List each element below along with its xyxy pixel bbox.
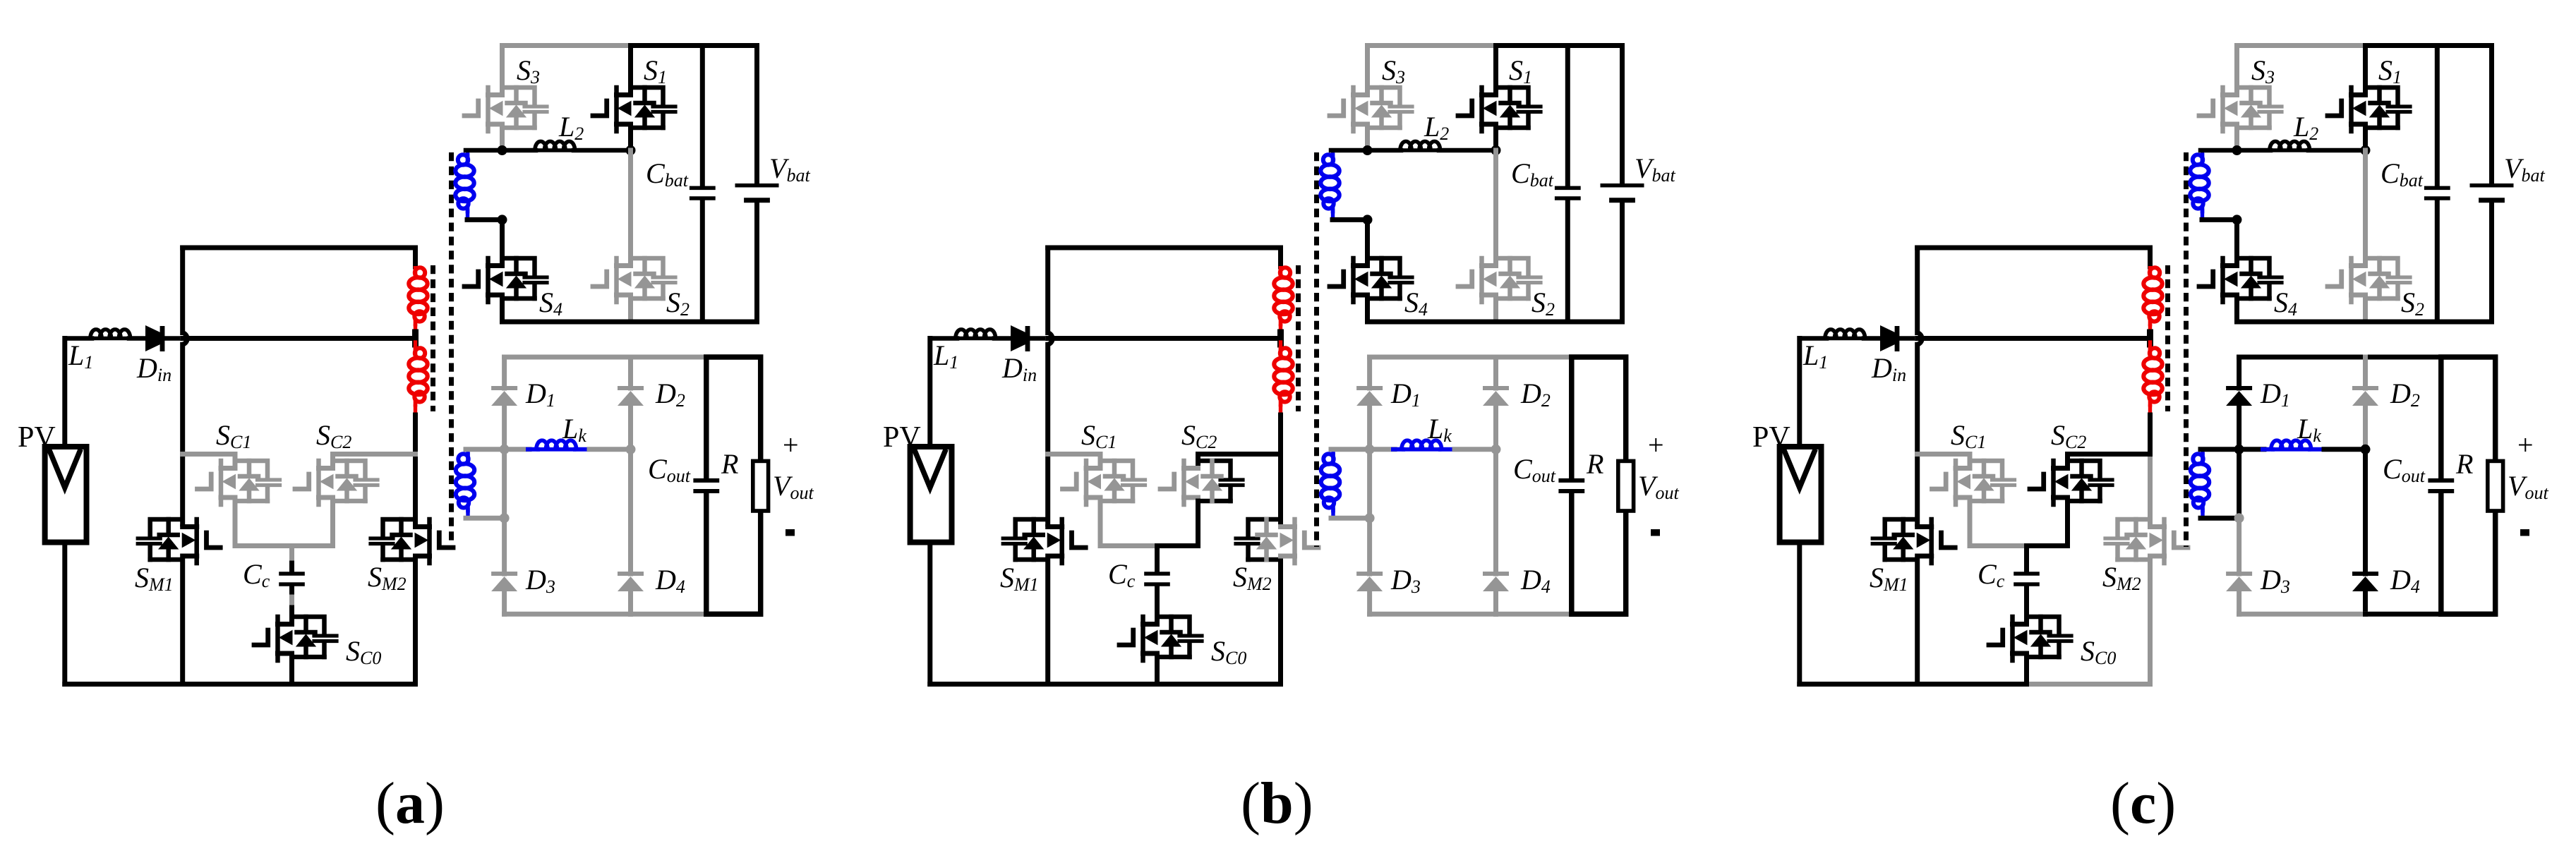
wire top rail black (631, 43, 757, 48)
wire mid rail to transformer tap (183, 336, 416, 341)
wire mid rail to transformer tap (1048, 336, 1281, 341)
transformer core dashed line long (1314, 152, 1319, 547)
wire right vertical mid (1278, 415, 1283, 454)
resistor R (2488, 461, 2503, 511)
inductor L2 (2201, 148, 2270, 153)
transformer primary winding 1 (red) (2150, 267, 2160, 277)
wire S4 source (1365, 298, 1370, 322)
battery Vbat (754, 46, 759, 184)
wire SC1 drain (1918, 454, 1970, 466)
wire S4 drain (500, 219, 505, 263)
node D2 mid (1491, 445, 1501, 454)
wire top rail gray (2237, 43, 2366, 48)
wire S1 drain (2363, 46, 2368, 93)
node winding2 bottom (2234, 513, 2244, 523)
node S3 mid (1363, 145, 1373, 155)
transistor S3 (464, 87, 547, 131)
wire D1 leg upper (2237, 357, 2241, 388)
wire right vertical mid (2148, 415, 2153, 454)
svg-text:+: + (2517, 429, 2534, 461)
capacitor Cc (1144, 574, 1170, 584)
wire D1 to mid (502, 406, 507, 518)
wire top bridge bottom rail (2237, 320, 2492, 325)
transistor SM2 (371, 519, 453, 563)
node Din junction (1918, 333, 1922, 345)
transistor S1 (1458, 87, 1541, 131)
wire right vertical below SM2 (2148, 560, 2153, 684)
wire left vertical upper (1045, 248, 1050, 333)
node D1 mid (1365, 445, 1375, 454)
svg-text:R: R (721, 448, 738, 480)
wire Cc to SC0 (1155, 586, 1160, 622)
wire S4 drain (1365, 219, 1370, 263)
transistor S1 (2328, 87, 2410, 131)
node transformer center tap (1277, 332, 1284, 344)
wire S2 source (628, 298, 633, 322)
capacitor Cbat (1565, 46, 1570, 187)
wire SC2 drain (1198, 454, 1281, 466)
diode D2 (2352, 386, 2378, 390)
wire bottom bridge bottom rail (505, 612, 631, 617)
node Din junction (183, 333, 188, 345)
wire top rail (1918, 246, 2150, 251)
wire output rectangle (1572, 357, 1626, 614)
wire top rail black (1496, 43, 1623, 48)
wire D3 leg (1367, 518, 1372, 574)
diode D1 (491, 386, 517, 390)
wire SC1 source (1100, 501, 1157, 546)
capacitor Cc (279, 574, 305, 584)
wire S3 source (1365, 128, 1370, 150)
transistor S1 (593, 87, 675, 131)
wire S3 drain (1365, 46, 1370, 93)
wire S1 drain (628, 46, 633, 93)
wire winding2 bottom (1331, 516, 1370, 521)
inductor Lk (blue) (505, 447, 529, 452)
wire right vertical top (2148, 248, 2153, 267)
diode D3 (491, 572, 517, 576)
wire D4 leg (628, 449, 633, 574)
label minus (786, 529, 795, 536)
wire right vertical top (413, 248, 418, 267)
transformer core dashed line short (431, 265, 435, 411)
node Din junction (1048, 333, 1053, 345)
wire winding2 top to leg (1331, 447, 1370, 452)
node D1 mid (500, 445, 510, 454)
wire top rail (183, 246, 416, 251)
diode Din (145, 325, 160, 351)
wire winding2 top to leg (2201, 447, 2239, 452)
diode D3 (1356, 572, 1383, 576)
svg-text:+: + (783, 429, 799, 461)
transformer core dashed line long (449, 152, 454, 547)
transistor S3 (2199, 87, 2282, 131)
wire D2 leg upper (2363, 357, 2368, 388)
node S1 mid (626, 145, 636, 155)
inductor L2 (466, 148, 536, 153)
wire PV top (62, 339, 67, 447)
transistor SM1 (138, 519, 220, 563)
wire left vertical upper (180, 248, 185, 333)
wire SC2 source (1157, 501, 1198, 546)
wire PV bottom (62, 543, 67, 684)
diode D2 (1483, 386, 1509, 390)
transformer primary winding 1 (red) (1280, 267, 1290, 277)
wire D3 leg (2237, 518, 2241, 574)
transistor S2 (1458, 258, 1541, 302)
wire top rail black (2366, 43, 2492, 48)
PV source PV (45, 447, 87, 543)
wire top rail (1048, 246, 1281, 251)
node D1 mid (2234, 445, 2244, 454)
wire to Cc (289, 546, 294, 564)
wire D4 leg (2363, 449, 2368, 574)
wire D2 leg upper (1493, 357, 1498, 388)
node S3 mid (498, 145, 507, 155)
transformer core dashed line short (2165, 265, 2170, 411)
wire bottom bridge bottom rail (2239, 612, 2366, 617)
wire winding1 bottom (2202, 217, 2237, 222)
wire SC2 source (2027, 501, 2068, 546)
wire S4 source (500, 298, 505, 322)
wire S3 drain (2234, 46, 2239, 93)
wire SC2 drain (2068, 454, 2150, 466)
wire left vertical upper (1915, 248, 1920, 333)
wire SC0 source (289, 657, 294, 684)
transistor SC2 (2030, 461, 2112, 505)
svg-text:PV: PV (1752, 421, 1790, 454)
wire winding2 top to leg (466, 447, 505, 452)
capacitor Cout (693, 481, 719, 491)
wire mid rail to transformer tap (1918, 336, 2150, 341)
node D2 mid (2361, 445, 2371, 454)
wire S2 source (1493, 298, 1498, 322)
transistor SM1 (1872, 519, 1955, 563)
wire top bridge bottom rail (502, 320, 757, 325)
wire Cc to SC0 (289, 586, 294, 597)
wire right vertical below SM2 (413, 560, 418, 684)
transformer primary winding 1 (red) (415, 267, 425, 277)
node S1 mid (1491, 145, 1501, 155)
transistor SC2 (295, 461, 378, 505)
diode D1 (2226, 386, 2252, 390)
PV source PV (1780, 447, 1822, 543)
wire to Cc (1155, 546, 1160, 572)
wire winding2 bottom (466, 516, 505, 521)
wire S2 drain long (628, 150, 633, 263)
transistor S4 (464, 258, 547, 302)
wire S3 source (500, 128, 505, 150)
transistor SC1 (198, 461, 280, 505)
wire Cc to SC0 (2024, 586, 2029, 622)
wire bottom bridge top rail (2239, 355, 2441, 360)
transistor S2 (593, 258, 675, 302)
wire SC2 source (292, 501, 333, 546)
wire D4 leg (1493, 449, 1498, 574)
capacitor Cout (2428, 481, 2454, 491)
wire top rail gray (1368, 43, 1496, 48)
wire SC0 source (1155, 657, 1160, 684)
wire S4 source (2234, 298, 2239, 322)
wire S2 drain long (1493, 150, 1498, 263)
wire D1 leg upper (1367, 357, 1372, 388)
wire winding1 bottom (467, 217, 502, 222)
wire bottom bridge top rail (1370, 355, 1572, 360)
node transformer center tap (2147, 332, 2153, 344)
wire bottom rail right (292, 682, 416, 687)
wire PV top (1797, 339, 1802, 447)
capacitor Cbat (700, 46, 705, 187)
transformer primary winding 2 (red) (2148, 342, 2152, 349)
transistor SC1 (1063, 461, 1145, 505)
wire bottom rail left (65, 682, 292, 687)
transformer secondary winding 2 (blue) (466, 449, 469, 454)
node transformer center tap (412, 332, 419, 344)
wire right vertical below SM2 (1278, 560, 1283, 684)
transformer secondary winding 1 (blue) (2201, 150, 2204, 155)
inductor L1 (930, 336, 957, 341)
inductor Lk (blue) (1370, 447, 1395, 452)
wire left vertical lower (180, 560, 185, 684)
wire top bridge bottom rail (1368, 320, 1623, 325)
transformer core dashed line short (1296, 265, 1301, 411)
node S1 mid (2361, 145, 2371, 155)
wire right vertical top (1278, 248, 1283, 267)
wire PV bottom (1797, 543, 1802, 684)
node S4 top (2232, 215, 2242, 224)
wire right vertical to SM2 (2148, 454, 2153, 525)
transistor S4 (2199, 258, 2282, 302)
svg-text:R: R (1586, 448, 1603, 480)
wire output rectangle (706, 357, 761, 614)
diode D4 (2352, 572, 2378, 576)
transistor SC0 (254, 617, 337, 660)
wire D1 leg upper (502, 357, 507, 388)
capacitor Cbat (2435, 46, 2440, 187)
transformer primary winding 2 (red) (1279, 342, 1282, 349)
wire left vertical lower (1915, 560, 1920, 684)
wire bottom rail left (930, 682, 1157, 687)
wire right vertical to SM2 (413, 454, 418, 525)
wire S2 drain long (2363, 150, 2368, 263)
transistor SM2 (2105, 519, 2188, 563)
svg-text:PV: PV (883, 421, 921, 454)
wire right vertical to SM2 (1278, 454, 1283, 525)
transformer secondary winding 2 (blue) (2201, 449, 2204, 454)
wire winding2 bottom (2201, 516, 2239, 521)
wire S2 source (2363, 298, 2368, 322)
wire D2 leg upper (628, 357, 633, 388)
capacitor Cc (2014, 574, 2040, 584)
resistor R (753, 461, 769, 511)
wire left vertical lower (1045, 560, 1050, 684)
inductor Lk (blue) (2239, 447, 2264, 452)
svg-text:PV: PV (18, 421, 56, 454)
svg-text:(a): (a) (375, 771, 445, 836)
PV source PV (910, 447, 952, 543)
transformer primary winding 2 (red) (414, 342, 417, 349)
node winding2 bottom (1365, 513, 1375, 523)
battery Vbat (1620, 46, 1625, 184)
wire bottom bridge bottom rail (1370, 612, 1496, 617)
wire S1 source (2363, 128, 2368, 150)
transistor SM2 (1236, 519, 1318, 563)
diode Din (1880, 325, 1895, 351)
wire bottom rail right (2027, 682, 2150, 687)
wire D1 to mid (1367, 406, 1372, 518)
wire bottom rail right (1157, 682, 1281, 687)
wire bottom rail left (1800, 682, 2027, 687)
wire PV bottom (927, 543, 932, 684)
wire S1 source (1493, 128, 1498, 150)
label minus (1651, 529, 1660, 536)
diode D4 (618, 572, 644, 576)
label minus (2520, 529, 2529, 536)
node S4 top (498, 215, 507, 224)
diode Din (1011, 325, 1025, 351)
resistor R (1618, 461, 1634, 511)
diode D3 (2226, 572, 2252, 576)
wire D1 to mid (2237, 406, 2241, 518)
capacitor Cout (1558, 481, 1584, 491)
transistor SC0 (1989, 617, 2071, 660)
transformer core dashed line long (2184, 152, 2189, 547)
transistor S4 (1330, 258, 1412, 302)
wire PV top (927, 339, 932, 447)
transistor S2 (2328, 258, 2410, 302)
svg-text:R: R (2455, 448, 2473, 480)
wire D3 leg (502, 518, 507, 574)
svg-text:(c): (c) (2110, 771, 2176, 836)
transistor SC0 (1119, 617, 1202, 660)
transistor SC1 (1932, 461, 2015, 505)
transistor SM1 (1003, 519, 1085, 563)
node S3 mid (2232, 145, 2242, 155)
wire SC0 source (2024, 657, 2029, 684)
svg-text:+: + (1648, 429, 1664, 461)
wire bottom bridge top rail (505, 355, 706, 360)
transistor S3 (1330, 87, 1412, 131)
wire SC1 drain (183, 454, 235, 466)
diode D2 (618, 386, 644, 390)
transistor SC2 (1160, 461, 1243, 505)
wire right vertical mid (413, 415, 418, 454)
node winding2 bottom (500, 513, 510, 523)
battery Vbat (2489, 46, 2494, 184)
wire S1 drain (1493, 46, 1498, 93)
diode D4 (1483, 572, 1509, 576)
transformer secondary winding 1 (blue) (1331, 150, 1335, 155)
wire S1 source (628, 128, 633, 150)
wire S4 drain (2234, 219, 2239, 263)
wire top rail gray (502, 43, 631, 48)
wire SC1 source (1970, 501, 2027, 546)
diode D1 (1356, 386, 1383, 390)
wire to Cc (2024, 546, 2029, 572)
wire S3 source (2234, 128, 2239, 150)
wire SC2 drain (333, 454, 416, 466)
inductor L1 (65, 336, 92, 341)
wire output rectangle (2441, 357, 2496, 614)
node S4 top (1363, 215, 1373, 224)
wire winding1 bottom (1332, 217, 1368, 222)
transformer secondary winding 1 (blue) (466, 150, 469, 155)
node D2 mid (626, 445, 636, 454)
svg-text:(b): (b) (1241, 771, 1313, 836)
wire S3 drain (500, 46, 505, 93)
inductor L1 (1800, 336, 1826, 341)
wire SC1 drain (1048, 454, 1100, 466)
inductor L2 (1331, 148, 1401, 153)
transformer secondary winding 2 (blue) (1331, 449, 1335, 454)
wire SC1 source (235, 501, 292, 546)
